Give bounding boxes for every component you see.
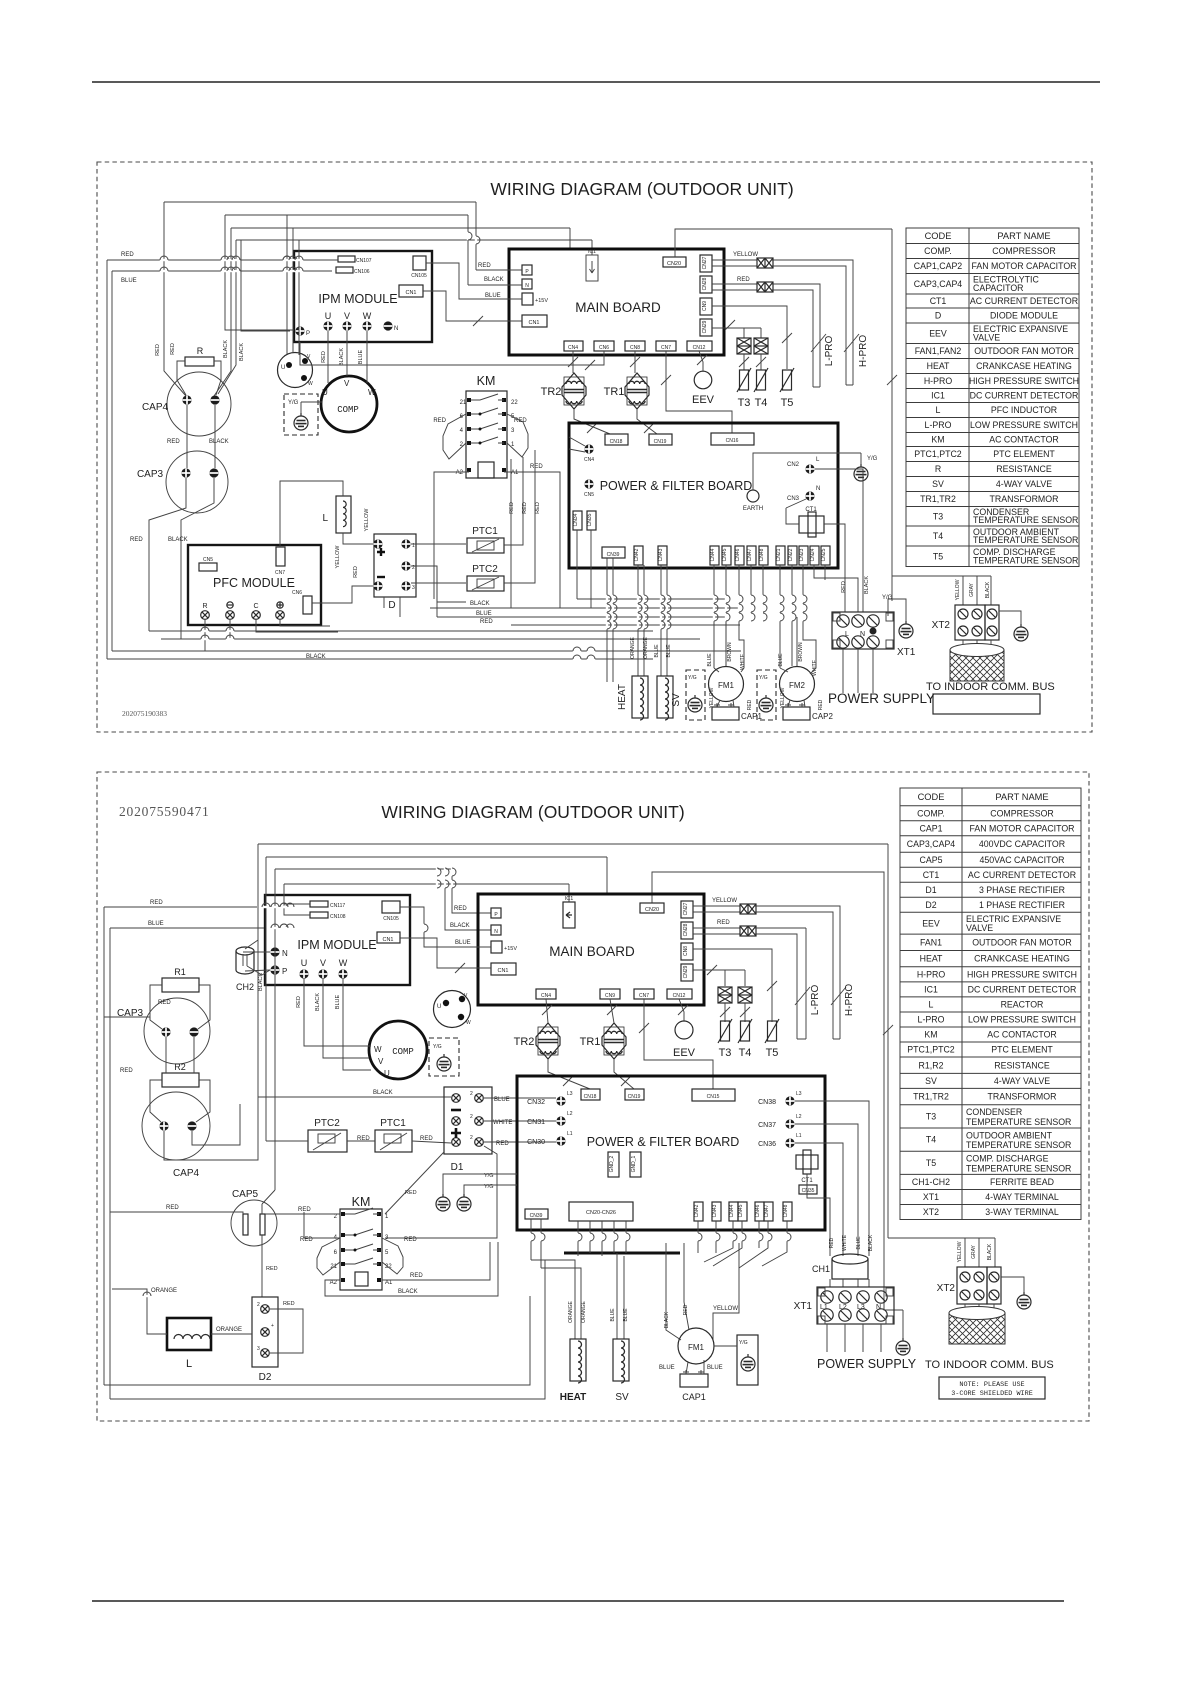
wire CN4 to TR2 xyxy=(546,999,548,1023)
svg-text:CN29: CN29 xyxy=(702,320,708,333)
svg-text:TR2: TR2 xyxy=(541,386,562,398)
svg-text:IPM MODULE: IPM MODULE xyxy=(318,292,397,306)
left bus verticals xyxy=(164,202,186,396)
svg-text:FM1: FM1 xyxy=(688,1343,705,1352)
distribution wires xyxy=(531,1260,581,1339)
svg-text:XT2: XT2 xyxy=(923,1207,939,1217)
thermistor T3 xyxy=(743,354,745,370)
svg-text:REACTOR: REACTOR xyxy=(1001,1000,1044,1010)
svg-text:R1: R1 xyxy=(174,967,186,977)
svg-text:SV: SV xyxy=(615,1392,629,1403)
svg-text:BLACK: BLACK xyxy=(239,343,245,361)
svg-text:BLUE: BLUE xyxy=(666,644,672,658)
thermistor T5 xyxy=(780,368,794,392)
connector CN1 (bottom IPM) xyxy=(377,932,400,943)
wire KM pin1 to D1 xyxy=(385,1152,444,1214)
svg-text:P: P xyxy=(282,967,287,976)
connector CN8 xyxy=(625,341,645,351)
svg-text:CAP4: CAP4 xyxy=(173,1168,200,1179)
svg-text:Y/G: Y/G xyxy=(688,675,697,681)
wire TR2 to CN18 xyxy=(574,409,610,434)
svg-text:3 PHASE RECTIFIER: 3 PHASE RECTIFIER xyxy=(979,885,1065,895)
svg-text:RED: RED xyxy=(514,418,527,424)
svg-text:EEV: EEV xyxy=(929,328,947,338)
svg-text:FAN MOTOR CAPACITOR: FAN MOTOR CAPACITOR xyxy=(969,823,1074,833)
top page rule xyxy=(92,81,1100,83)
svg-text:PTC ELEMENT: PTC ELEMENT xyxy=(993,449,1055,459)
svg-text:CN28: CN28 xyxy=(702,277,708,290)
svg-text:POWER & FILTER BOARD: POWER & FILTER BOARD xyxy=(587,1135,740,1149)
svg-text:W: W xyxy=(308,381,313,387)
bottom connectors row xyxy=(634,546,643,565)
Y/G earth dashed box (comp) xyxy=(284,394,318,435)
svg-text:L: L xyxy=(936,405,941,415)
power supply leads (bottom) xyxy=(827,1324,881,1352)
wire CN8-TR1 xyxy=(634,351,636,373)
svg-text:BLUE: BLUE xyxy=(148,921,164,927)
svg-text:IC1: IC1 xyxy=(588,249,596,255)
svg-text:L: L xyxy=(186,1358,192,1370)
svg-text:RED: RED xyxy=(522,502,528,514)
wires CAP4 to CAP3 xyxy=(187,405,215,468)
svg-text:CN35: CN35 xyxy=(802,1188,815,1194)
connector CN107 xyxy=(338,256,355,262)
svg-text:RED: RED xyxy=(480,619,493,625)
svg-text:ORANGE: ORANGE xyxy=(630,637,636,659)
wire TR1 to CN19 xyxy=(614,1059,634,1089)
thermistor T5 (bottom) xyxy=(765,1019,779,1043)
inductor L xyxy=(336,496,351,533)
connector CN105 (bottom IPM) xyxy=(382,901,400,913)
reactor L xyxy=(167,1318,211,1350)
svg-text:PTC ELEMENT: PTC ELEMENT xyxy=(991,1045,1053,1055)
svg-text:CN107: CN107 xyxy=(356,258,372,264)
svg-text:V: V xyxy=(344,311,350,321)
thermistor T4 (bottom) xyxy=(744,1003,746,1022)
IPM terminal P xyxy=(295,326,304,335)
svg-text:ORANGE: ORANGE xyxy=(216,1327,242,1333)
power supply leads xyxy=(843,649,873,693)
svg-text:FAN MOTOR CAPACITOR: FAN MOTOR CAPACITOR xyxy=(971,261,1076,271)
wire CN20 up and right xyxy=(675,229,892,257)
svg-text:U: U xyxy=(325,311,332,321)
svg-text:CN105: CN105 xyxy=(383,916,399,922)
svg-text:CN3: CN3 xyxy=(787,496,800,502)
svg-text:CN1: CN1 xyxy=(497,968,508,974)
svg-text:4-WAY VALVE: 4-WAY VALVE xyxy=(994,1076,1050,1086)
svg-text:CAP3,CAP4: CAP3,CAP4 xyxy=(907,839,956,849)
wire BLUE horizontal xyxy=(112,270,332,272)
svg-text:CAP1: CAP1 xyxy=(682,1392,706,1402)
svg-text:BLUE: BLUE xyxy=(654,644,660,658)
svg-text:WHITE: WHITE xyxy=(740,653,746,670)
svg-text:R: R xyxy=(935,464,941,474)
svg-text:450VAC CAPACITOR: 450VAC CAPACITOR xyxy=(979,855,1064,865)
COMP (bottom) xyxy=(369,1021,427,1079)
wire L to D xyxy=(343,533,373,544)
svg-text:RED: RED xyxy=(296,996,302,1008)
svg-text:202075590471: 202075590471 xyxy=(119,804,210,819)
connector CN39 xyxy=(602,547,625,558)
POWER & FILTER BOARD (top diagram) xyxy=(569,423,838,568)
svg-text:CN12: CN12 xyxy=(673,993,686,999)
svg-text:BLUE: BLUE xyxy=(476,611,492,617)
connector CN18 xyxy=(605,434,628,445)
svg-text:HIGH PRESSURE SWITCH: HIGH PRESSURE SWITCH xyxy=(969,376,1079,386)
svg-text:RESISTANCE: RESISTANCE xyxy=(994,1060,1050,1070)
svg-text:T4: T4 xyxy=(755,397,768,409)
svg-text:CN32: CN32 xyxy=(527,1099,545,1106)
connector CN16 xyxy=(711,433,754,445)
svg-text:T5: T5 xyxy=(766,1047,779,1059)
svg-text:TR1: TR1 xyxy=(604,386,625,398)
svg-text:AC CONTACTOR: AC CONTACTOR xyxy=(987,1030,1057,1040)
connector (red) xyxy=(757,282,773,292)
shielded cable (bottom) xyxy=(965,1304,994,1313)
svg-text:CN19: CN19 xyxy=(654,439,667,445)
svg-text:TEMPERATURE SENSOR: TEMPERATURE SENSOR xyxy=(973,556,1078,566)
svg-text:R: R xyxy=(197,346,204,356)
wires UVW to COMP (bottom) xyxy=(304,978,371,1070)
svg-text:D1: D1 xyxy=(925,885,936,895)
svg-text:A2: A2 xyxy=(330,1280,338,1286)
terminal P (main bottom) xyxy=(491,908,501,918)
svg-text:U: U xyxy=(322,388,328,397)
svg-text:CN21: CN21 xyxy=(776,548,782,561)
svg-text:CH2: CH2 xyxy=(236,982,254,992)
wires D right to PTC xyxy=(411,544,466,602)
svg-text:CN34: CN34 xyxy=(573,513,579,526)
EEV valve xyxy=(694,371,712,389)
svg-text:RED: RED xyxy=(155,344,161,356)
svg-text:YELLOW: YELLOW xyxy=(709,687,715,708)
svg-text:PTC1,PTC2: PTC1,PTC2 xyxy=(907,1045,955,1055)
svg-text:BROWN: BROWN xyxy=(798,642,804,662)
connector CN15 (bottom) xyxy=(692,1089,735,1101)
svg-text:CN46: CN46 xyxy=(735,548,741,561)
svg-text:VALVE: VALVE xyxy=(966,923,993,933)
svg-text:CN105: CN105 xyxy=(411,273,427,279)
IPM terminal N xyxy=(383,321,392,330)
connector CN27 xyxy=(700,255,712,272)
connector CN6 xyxy=(594,341,614,351)
svg-text:CH1-CH2: CH1-CH2 xyxy=(912,1177,950,1187)
svg-text:YELLOW: YELLOW xyxy=(712,898,737,904)
svg-text:TEMPERATURE SENSOR: TEMPERATURE SENSOR xyxy=(966,1117,1071,1127)
wires CN2/CN3/CT1 xyxy=(786,469,863,612)
svg-text:OUTDOOR AMBIENT: OUTDOOR AMBIENT xyxy=(966,1130,1053,1140)
parts table bottom xyxy=(900,788,1081,1220)
connector CN4 xyxy=(564,341,583,351)
svg-text:PTC2: PTC2 xyxy=(314,1118,340,1129)
svg-text:XT2: XT2 xyxy=(937,1283,956,1294)
svg-text:CN29: CN29 xyxy=(683,965,689,978)
capacitor CAP1 xyxy=(712,707,739,720)
capacitor CAP4 (bottom) xyxy=(142,1092,210,1160)
svg-text:CN6: CN6 xyxy=(292,590,302,596)
transformer TR2 (bottom) xyxy=(536,1023,560,1059)
wire U to comp xyxy=(327,331,329,383)
KM A1/A2 wires xyxy=(434,472,560,608)
svg-text:DIODE MODULE: DIODE MODULE xyxy=(990,311,1058,321)
rectifier D2 xyxy=(252,1297,278,1367)
connector CN20 (bottom) xyxy=(640,903,664,913)
terminal P xyxy=(522,265,532,275)
svg-text:2: 2 xyxy=(470,1114,473,1120)
MAIN BOARD (bottom) xyxy=(478,894,704,1005)
wires buses to plug connector xyxy=(287,215,299,355)
wire W to comp xyxy=(366,331,368,383)
transformer TR2 xyxy=(562,373,586,409)
svg-text:POWER & FILTER BOARD: POWER & FILTER BOARD xyxy=(600,479,753,493)
Y/G dashed box 1 xyxy=(686,670,705,720)
svg-text:RED: RED xyxy=(478,263,491,269)
top diagram dashed frame xyxy=(97,162,1092,732)
svg-text:HEAT: HEAT xyxy=(920,954,943,964)
resistor R1 xyxy=(162,978,199,992)
right edge connectors xyxy=(681,901,693,918)
Y/G dashed box (bottom comp) xyxy=(429,1038,459,1076)
compressor COMP xyxy=(321,376,377,432)
svg-text:ORANGE: ORANGE xyxy=(151,1288,177,1294)
KM A1 wire xyxy=(382,1242,490,1280)
svg-text:TR1,TR2: TR1,TR2 xyxy=(913,1092,949,1102)
svg-text:D: D xyxy=(388,600,395,611)
svg-text:CRANKCASE HEATING: CRANKCASE HEATING xyxy=(976,361,1072,371)
wire CN9 to T5 xyxy=(712,306,787,369)
svg-text:H-PRO: H-PRO xyxy=(858,335,869,367)
svg-text:COMP: COMP xyxy=(337,405,359,415)
svg-text:VALVE: VALVE xyxy=(973,333,1000,343)
terminal XT1 xyxy=(832,612,894,649)
thermistor T4 xyxy=(760,354,762,370)
svg-text:4-WAY VALVE: 4-WAY VALVE xyxy=(996,479,1052,489)
svg-text:T5: T5 xyxy=(781,397,794,409)
svg-text:A2: A2 xyxy=(456,470,464,476)
terminal N (main bottom) xyxy=(491,925,501,935)
svg-text:AC CONTACTOR: AC CONTACTOR xyxy=(989,435,1059,445)
terminal N xyxy=(522,279,532,289)
svg-text:CN35: CN35 xyxy=(587,513,593,526)
svg-text:RED: RED xyxy=(818,699,824,710)
capacitor CAP3 xyxy=(166,451,228,513)
svg-text:BLUE: BLUE xyxy=(778,653,784,667)
svg-text:CN4: CN4 xyxy=(541,993,551,999)
wire CN7 to CN16 xyxy=(666,351,732,433)
wire CN9 to TR1 xyxy=(610,999,614,1023)
svg-text:CAP2: CAP2 xyxy=(812,712,833,721)
parts table top xyxy=(906,228,1079,567)
connector CN6 (PFC) xyxy=(303,596,312,614)
svg-text:CN39: CN39 xyxy=(607,552,620,558)
wires CAP3 down to PFC area xyxy=(149,478,214,639)
svg-text:BLUE: BLUE xyxy=(610,1308,616,1322)
svg-text:L: L xyxy=(845,631,849,638)
connector CN20-CN26 xyxy=(569,1202,633,1221)
crankcase heater HEAT xyxy=(632,676,648,720)
bottom page rule xyxy=(92,1600,1064,1602)
svg-text:PTC2: PTC2 xyxy=(472,564,498,575)
resistor R2 xyxy=(162,1073,199,1087)
svg-text:KM: KM xyxy=(352,1195,371,1209)
svg-text:N: N xyxy=(860,631,865,638)
wire CN7 to CN15 xyxy=(644,999,713,1089)
svg-text:XT1: XT1 xyxy=(897,647,916,658)
ground right of XT2 xyxy=(999,611,1021,624)
wire CN6(PFC) to D xyxy=(312,586,373,603)
svg-text:CODE: CODE xyxy=(918,792,945,802)
svg-text:CN2: CN2 xyxy=(787,462,800,468)
ground right of XT1 xyxy=(902,1310,904,1338)
wire CN6 down-left xyxy=(300,342,604,365)
wire V to comp xyxy=(346,331,348,376)
svg-text:TEMPERATURE SENSOR: TEMPERATURE SENSOR xyxy=(966,1163,1071,1173)
svg-text:COMP.: COMP. xyxy=(917,808,945,818)
svg-text:CN43: CN43 xyxy=(658,548,664,561)
svg-text:2: 2 xyxy=(257,1302,260,1308)
terminal P xyxy=(270,965,279,974)
svg-text:CN9: CN9 xyxy=(605,993,615,999)
bus wires to main board right (CN20 path) xyxy=(652,872,903,1310)
PFC MODULE board xyxy=(188,545,321,625)
H-PRO switch (bottom) xyxy=(831,987,846,1005)
svg-text:CN4: CN4 xyxy=(584,457,594,463)
terminal +15V xyxy=(522,293,533,305)
svg-text:BROWN: BROWN xyxy=(727,642,733,662)
ferrite bead CH2 xyxy=(236,947,254,955)
svg-text:RED: RED xyxy=(535,502,541,514)
svg-text:2: 2 xyxy=(470,1091,473,1097)
svg-text:CN1: CN1 xyxy=(528,320,539,326)
connector CN34 xyxy=(573,511,582,530)
wires through CH2 to N P xyxy=(243,954,247,966)
svg-text:WIRING DIAGRAM (OUTDOOR UNIT): WIRING DIAGRAM (OUTDOOR UNIT) xyxy=(490,179,793,199)
capacitor CAP3 (bottom) xyxy=(144,998,210,1064)
svg-text:CT1: CT1 xyxy=(930,296,947,306)
KM side hexagons xyxy=(317,1238,340,1275)
long bottom wires xyxy=(104,1260,545,1399)
connector CN28 xyxy=(700,276,712,293)
svg-text:N: N xyxy=(282,949,288,958)
4-pin plug connector xyxy=(278,353,313,388)
svg-text:HEAT: HEAT xyxy=(617,684,628,710)
svg-text:L: L xyxy=(322,513,328,524)
svg-text:T4: T4 xyxy=(926,1135,936,1145)
svg-text:HIGH PRESSURE SWITCH: HIGH PRESSURE SWITCH xyxy=(967,969,1077,979)
svg-text:CN44: CN44 xyxy=(710,548,716,561)
note box xyxy=(939,1377,1045,1399)
svg-text:H-PRO: H-PRO xyxy=(917,969,946,979)
ground right of XT2 (bottom) xyxy=(1001,1277,1024,1292)
connector CN106 xyxy=(336,267,353,273)
current transformer CT1 (bottom) xyxy=(796,1155,818,1169)
wires to XT2 xyxy=(892,576,991,605)
svg-text:CN20: CN20 xyxy=(667,261,681,267)
connector CN1 (main) xyxy=(522,315,547,327)
svg-text:RED: RED xyxy=(410,1273,423,1279)
wire TR2 to CN18 xyxy=(548,1059,590,1089)
4-pin plug (bottom) xyxy=(434,991,471,1028)
svg-text:YELLOW: YELLOW xyxy=(713,1306,738,1312)
svg-text:PART NAME: PART NAME xyxy=(997,231,1050,241)
wire CN4-TR2 xyxy=(572,351,574,373)
svg-text:BLUE: BLUE xyxy=(707,653,713,667)
svg-text:RED: RED xyxy=(717,920,730,926)
svg-text:TO INDOOR COMM. BUS: TO INDOOR COMM. BUS xyxy=(926,681,1055,693)
svg-text:TR2: TR2 xyxy=(514,1036,535,1048)
svg-text:W: W xyxy=(339,958,348,968)
svg-text:COMPRESSOR: COMPRESSOR xyxy=(992,246,1056,256)
svg-text:CN9: CN9 xyxy=(702,301,708,311)
svg-text:W: W xyxy=(368,388,376,397)
wire CN29 to T3 T4 xyxy=(712,328,761,338)
connector CN117 xyxy=(310,901,328,907)
KM side wire hexagons xyxy=(443,414,466,459)
svg-text:ORANGE: ORANGE xyxy=(643,637,649,659)
svg-text:CN47: CN47 xyxy=(764,1204,770,1217)
svg-text:BLUE: BLUE xyxy=(121,278,137,284)
bottom connectors (bottom board) xyxy=(694,1202,703,1221)
svg-text:CN46: CN46 xyxy=(755,1204,761,1217)
svg-text:Y/G: Y/G xyxy=(867,456,878,462)
svg-text:RED: RED xyxy=(841,581,847,593)
capacitor CAP4 xyxy=(167,372,231,436)
svg-text:BLACK: BLACK xyxy=(373,1090,393,1096)
svg-text:LOW PRESSURE SWITCH: LOW PRESSURE SWITCH xyxy=(968,1015,1076,1025)
connector CN7 (PFC) xyxy=(276,547,285,566)
svg-text:CN6: CN6 xyxy=(599,345,609,351)
connector CN12 xyxy=(687,341,712,351)
svg-text:4-WAY TERMINAL: 4-WAY TERMINAL xyxy=(985,1192,1059,1202)
connector CN35 xyxy=(587,511,596,530)
Y/G dashed box 2 xyxy=(757,670,776,720)
svg-text:CN19: CN19 xyxy=(628,1094,641,1100)
svg-text:IC1: IC1 xyxy=(931,391,945,401)
connector CN1 (main bottom) xyxy=(491,963,516,975)
left vertical feeds xyxy=(106,260,108,659)
terminal CN5 (board) xyxy=(584,479,593,488)
svg-text:L1: L1 xyxy=(820,1304,828,1311)
wire RED horizontal xyxy=(107,259,338,261)
IPM MODULE board (bottom) xyxy=(265,895,410,985)
terminal XT2 (bottom) xyxy=(957,1267,987,1304)
svg-text:NOTE: PLEASE USE: NOTE: PLEASE USE xyxy=(959,1381,1024,1389)
svg-text:FAN1: FAN1 xyxy=(920,937,942,947)
Y/G ground box (bottom) xyxy=(737,1335,758,1385)
svg-text:L-PRO: L-PRO xyxy=(925,420,952,430)
svg-text:YELLOW: YELLOW xyxy=(335,545,341,569)
svg-text:XT1: XT1 xyxy=(923,1192,939,1202)
svg-text:R1,R2: R1,R2 xyxy=(919,1060,944,1070)
svg-text:BLUE: BLUE xyxy=(707,1365,723,1371)
svg-text:CN27: CN27 xyxy=(683,902,689,915)
svg-text:ORANGE: ORANGE xyxy=(568,1301,574,1323)
connector T4 xyxy=(754,338,768,354)
transformer TR1 (bottom) xyxy=(602,1023,626,1059)
svg-text:L3: L3 xyxy=(567,1091,573,1097)
verticals from CN42-48 xyxy=(698,1221,787,1268)
IC1 (bottom) xyxy=(563,902,575,928)
svg-text:AC CURRENT DETECTOR: AC CURRENT DETECTOR xyxy=(970,296,1078,306)
svg-text:L2: L2 xyxy=(567,1111,573,1117)
svg-text:Y/G: Y/G xyxy=(759,675,768,681)
svg-text:CT1: CT1 xyxy=(923,870,940,880)
wire CAP4 to D1 (BLACK) xyxy=(164,1097,451,1160)
svg-text:CAP5: CAP5 xyxy=(920,855,943,865)
svg-text:RED: RED xyxy=(509,502,515,514)
svg-text:CN27: CN27 xyxy=(702,256,708,269)
svg-text:CRANKCASE HEATING: CRANKCASE HEATING xyxy=(974,954,1070,964)
